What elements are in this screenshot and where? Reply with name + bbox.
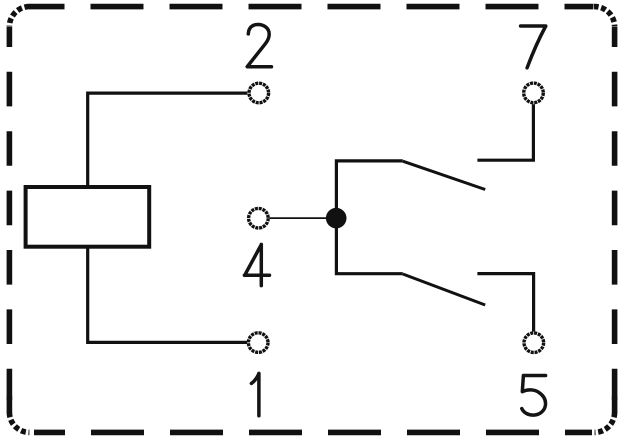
pin label 2 — [247, 25, 271, 67]
dashed enclosure border top — [29, 4, 593, 10]
wire lower fixed contact to pin 5 — [477, 274, 533, 332]
pin label 4 — [244, 244, 269, 285]
border corner arc top-left — [9, 7, 29, 27]
pin label 5 — [522, 376, 546, 416]
wire upper fixed contact to pin 7 — [477, 104, 533, 160]
switch blade upper S1 — [403, 161, 485, 189]
border right lower end segment — [612, 397, 618, 414]
border left lower end segment — [7, 397, 13, 414]
wire coil top to pin 2 — [88, 93, 248, 187]
pin label 7 — [521, 26, 546, 68]
border corner arc bottom-right — [595, 412, 615, 432]
pin 5 terminal circle — [524, 333, 544, 353]
dashed enclosure border bottom — [34, 430, 592, 436]
border corner arc top-right — [594, 7, 615, 27]
wire coil bottom to pin 1 — [88, 247, 247, 343]
dashed enclosure border right — [612, 27, 618, 400]
pin 7 terminal circle — [524, 83, 544, 103]
pin 1 terminal circle — [248, 333, 268, 353]
wire pin 4 to common node — [270, 217, 335, 219]
border corner arc bottom-left — [9, 412, 29, 432]
junction node common — [326, 208, 347, 229]
pin label 1 — [251, 373, 259, 415]
pin 2 terminal circle — [249, 83, 269, 103]
wire common node to upper contact — [336, 161, 402, 218]
switch blade lower S2 — [403, 274, 485, 305]
wire common node to lower contact — [336, 218, 402, 274]
relay coil K1 — [26, 187, 150, 247]
dashed enclosure border left — [7, 27, 13, 400]
pin 4 terminal circle — [249, 208, 269, 228]
